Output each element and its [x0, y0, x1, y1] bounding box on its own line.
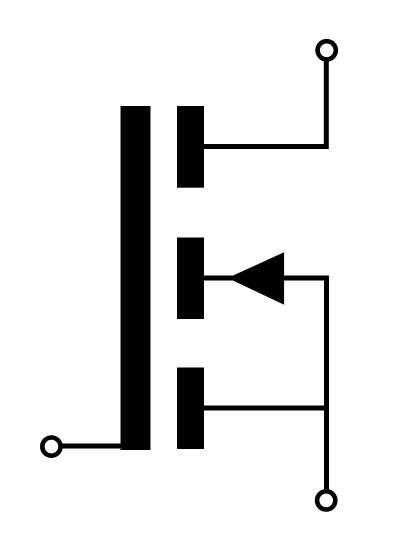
- body diode arrow pointing into channel: [228, 252, 285, 305]
- gate electrode plate: [121, 106, 151, 450]
- wire source lead (horizontal from bottom channel bar to right vertical wire): [204, 406, 329, 411]
- channel bar source segment: [177, 368, 204, 450]
- gate terminal circle: [42, 438, 60, 456]
- wire gate lead (horizontal from gate terminal to gate plate): [51, 444, 123, 449]
- wire drain lead (vertical from drain terminal, corner, horizontal to top channel bar): [203, 52, 326, 147]
- wire body lead with corner down the right side: [204, 278, 327, 499]
- drain terminal circle: [318, 41, 336, 59]
- source terminal circle: [317, 491, 335, 509]
- channel bar drain segment: [177, 106, 204, 188]
- channel bar body segment: [177, 238, 204, 320]
